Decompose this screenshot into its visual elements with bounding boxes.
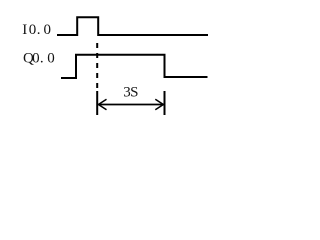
left arrowhead [98, 99, 106, 110]
Q0.0 waveform trace [61, 55, 208, 78]
dashed edge reference line [96, 43, 98, 88]
I0.0 waveform trace [57, 17, 208, 35]
dimension arrow shaft [98, 104, 163, 106]
svg-text:I0.0: I0.0 [22, 22, 51, 38]
svg-text:Q0.0: Q0.0 [23, 51, 55, 67]
svg-text:3S: 3S [123, 85, 138, 101]
right dimension tick [164, 91, 166, 115]
right arrowhead [155, 99, 163, 110]
left dimension tick [96, 91, 98, 115]
